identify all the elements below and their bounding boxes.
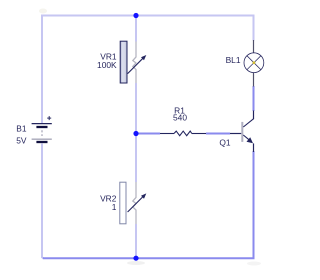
battery B1	[32, 117, 52, 142]
wire R1 junction to VR2	[135, 134, 137, 183]
wire base branch (junction to R1)	[136, 133, 160, 135]
potentiometer VR2 body	[120, 182, 126, 224]
transistor Q1	[230, 111, 254, 153]
wire center branch (top junction to VR1)	[135, 16, 137, 42]
battery plus sign	[47, 116, 51, 120]
faint shadow under bottom-right corner	[247, 262, 261, 266]
VR1 wiper arrow	[128, 55, 147, 74]
node base junction	[133, 131, 138, 136]
VR2 wiper arrow	[128, 193, 147, 212]
faint smudge above top-left corner	[39, 9, 47, 14]
lamp BL1	[244, 40, 264, 87]
wire R1 to transistor base	[206, 133, 230, 135]
node top junction	[133, 13, 138, 18]
wire left rail below battery	[42, 144, 44, 259]
wire bottom rail	[43, 252, 254, 258]
svg-text:Q1: Q1	[219, 137, 231, 147]
wire VR1 to R1 junction	[135, 83, 137, 134]
VR2 internal element line with wiper kinks	[133, 182, 136, 224]
svg-text:BL1: BL1	[226, 55, 241, 65]
wire top rail	[42, 16, 254, 124]
resistor R1	[160, 131, 206, 136]
svg-text:B1: B1	[16, 123, 27, 133]
wire VR2 to bottom junction	[135, 224, 137, 258]
wire collector (lamp to Q1)	[253, 86, 255, 111]
svg-text:100K: 100K	[97, 60, 117, 70]
VR1 internal element line with wiper kinks	[133, 42, 136, 84]
svg-text:1: 1	[112, 202, 117, 212]
faint shadow under bottom junction	[127, 261, 145, 265]
svg-text:5V: 5V	[16, 136, 27, 146]
wire emitter (Q1 to bottom rail)	[253, 151, 255, 253]
node bottom junction	[133, 256, 138, 261]
svg-text:540: 540	[173, 113, 187, 123]
